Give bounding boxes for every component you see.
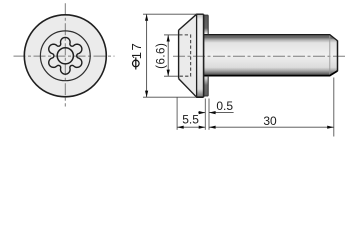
phi17 bottom arrow (145, 91, 148, 98)
screw shaft body (204, 35, 338, 76)
(6.6) dimension line (167, 35, 169, 76)
5.5 right arrow (199, 126, 206, 129)
head 0.5 edge band (204, 15, 209, 96)
extension line from shaft tip (333, 78, 335, 137)
(6.6) bottom arrow (167, 70, 170, 77)
(6.6) top arrow (167, 35, 170, 42)
head outer circle (phi 17) (24, 15, 106, 97)
front view vertical centerline (64, 3, 66, 106)
cone-to-rim edge line (196, 14, 198, 97)
phi17 top extension tick (143, 13, 197, 15)
shaft overlap fill (204, 35, 209, 76)
shaft top inner highlight line (204, 37, 331, 39)
5.5 dimension line (177, 126, 205, 128)
front view horizontal centerline (14, 55, 115, 57)
extension line from head bearing edge (204, 99, 206, 130)
side view centerline (173, 55, 345, 57)
recess center pilot circle (57, 48, 73, 64)
0.5 dimension right tail (209, 112, 234, 114)
phi17 bottom extension tick (143, 96, 196, 98)
svg-text:(6.6): (6.6) (156, 43, 168, 69)
extension line from head left face (176, 98, 178, 130)
hexalobular (torx) recess outline (49, 37, 82, 74)
svg-text:5.5: 5.5 (182, 112, 199, 126)
shaft chamfer start edge (329, 36, 331, 75)
5.5 left arrow (177, 126, 184, 129)
svg-text:17: 17 (129, 42, 144, 59)
30 left arrow (209, 126, 216, 129)
recess hidden outline (dashed) (179, 35, 190, 76)
edge band bottom edge (204, 95, 209, 97)
shaft top outline (204, 35, 338, 41)
0.5 left arrow (199, 111, 206, 114)
(6.6) bottom extension tick (164, 75, 178, 77)
0.5 dimension left tail (198, 112, 205, 114)
(6.6) top extension tick (164, 34, 178, 36)
svg-text:30: 30 (263, 114, 277, 128)
extension line from 0.5 edge (208, 99, 210, 130)
head right edge (207, 15, 209, 96)
phi17 label: phi symbol circle (133, 60, 140, 67)
edge band top edge (204, 14, 209, 16)
30 right arrow (327, 126, 334, 129)
0.5 right arrow (209, 111, 216, 114)
shaft tip end face (337, 41, 339, 72)
head rim top edge (196, 13, 204, 15)
svg-text:0.5: 0.5 (216, 99, 233, 113)
rim-to-edge band line (203, 14, 205, 97)
30 dimension line (209, 126, 334, 128)
phi17 dimension line (146, 14, 148, 97)
head top flat face edge circle (40, 31, 90, 81)
phi17 label: phi symbol stem (135, 57, 137, 69)
phi17 top arrow (145, 14, 148, 21)
head left face line (178, 30, 180, 79)
head cone bottom slant (179, 79, 197, 98)
shaft bottom outline (204, 71, 338, 76)
head rim bottom edge (196, 96, 204, 98)
head rim cylindrical band (197, 14, 204, 97)
head front view fill (24, 15, 106, 97)
head cone top slant (179, 14, 197, 30)
head side view cone fill (179, 14, 197, 97)
